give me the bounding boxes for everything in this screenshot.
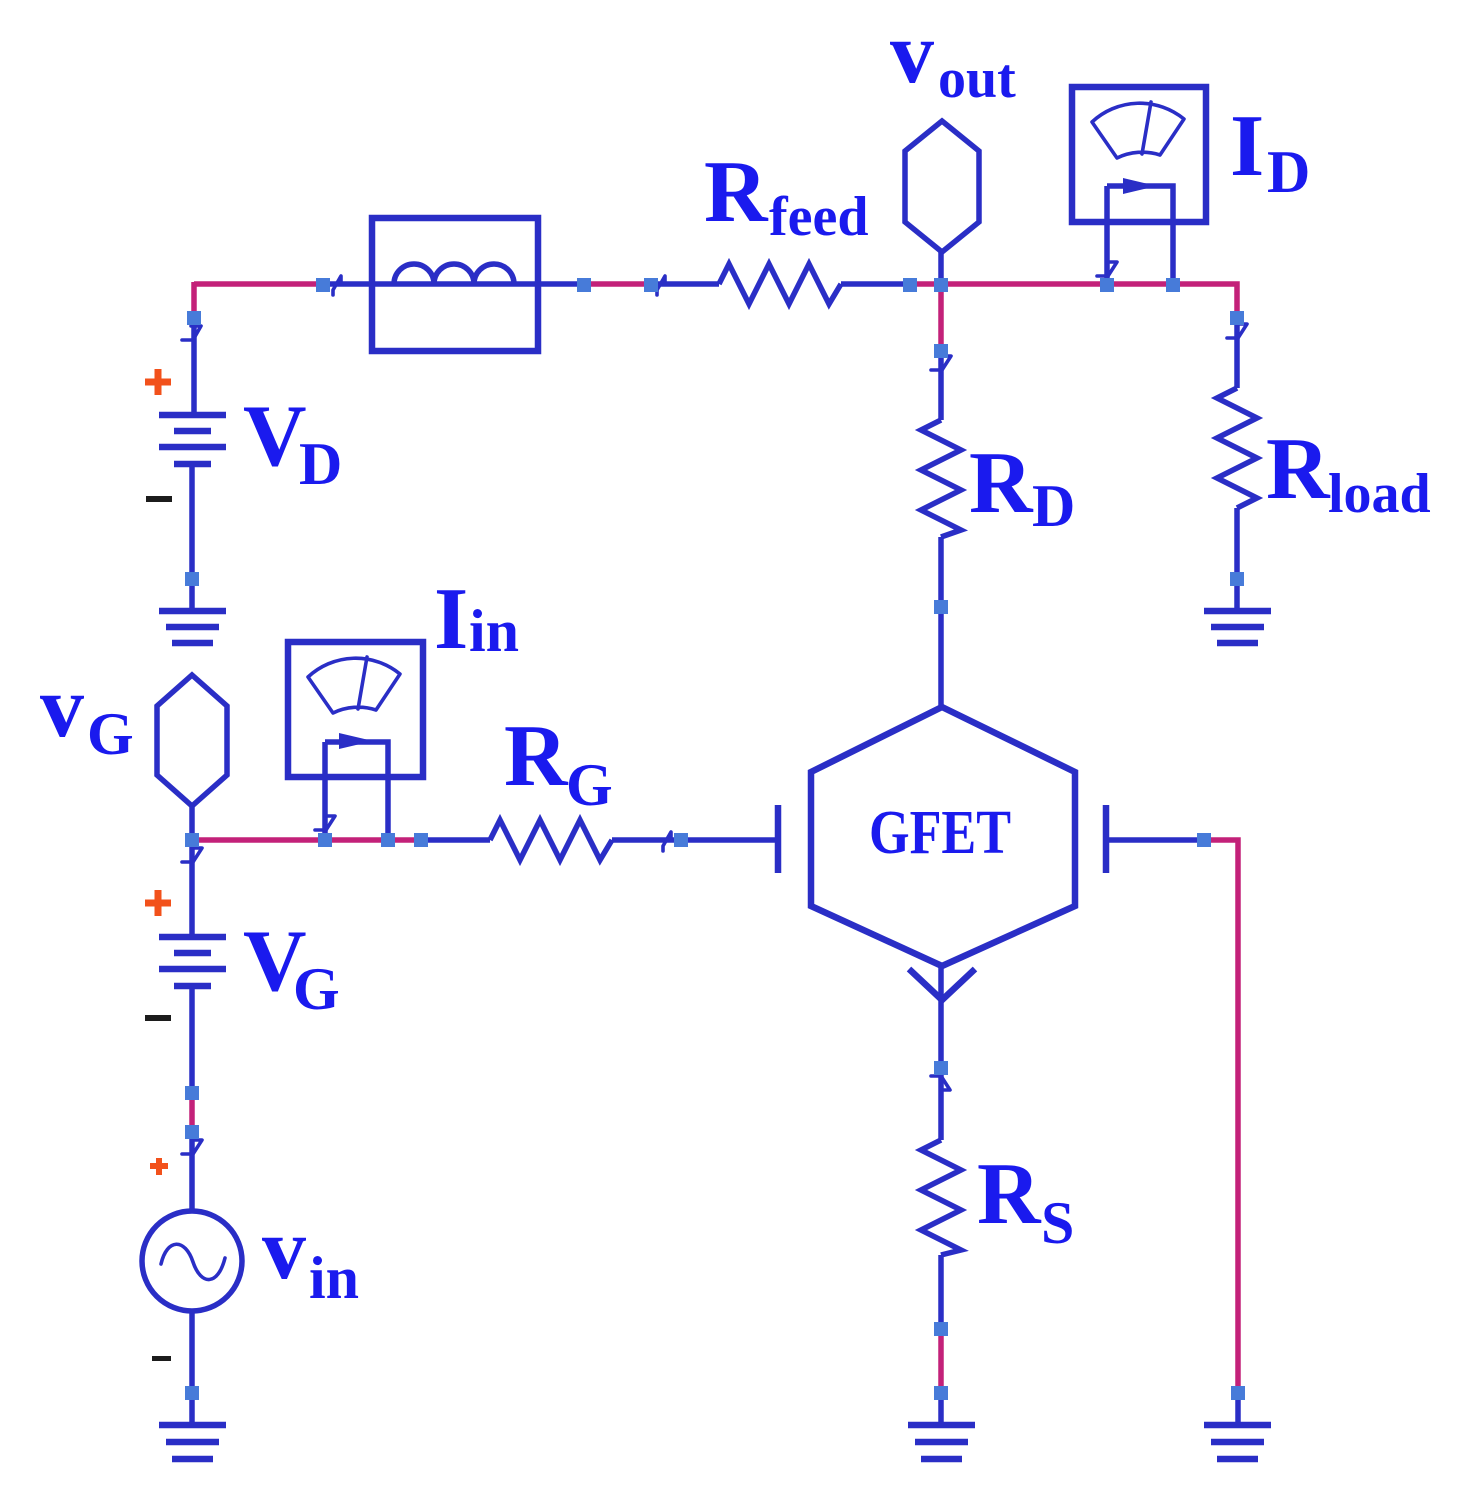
junction node vG (185, 833, 199, 847)
wire RD bottom lead to GFET drain (938, 537, 944, 710)
ground below VD (159, 611, 226, 643)
wire Rload bottom lead to ground (1234, 508, 1240, 611)
wire inductor left (323, 281, 590, 287)
junction node GFET right gate (1197, 833, 1211, 847)
wire RG left lead (419, 837, 490, 843)
wire vG stem (189, 804, 195, 843)
svg-text:G: G (87, 701, 134, 767)
junction node RD top (934, 344, 948, 358)
resistor RG (490, 820, 612, 860)
svg-text:out: out (938, 48, 1016, 110)
wire vout stem (938, 250, 944, 287)
source vin minus label (152, 1356, 171, 1361)
wire magenta RS bottom to ground (938, 1333, 944, 1390)
ground bottom right (1204, 1425, 1271, 1459)
svg-text:load: load (1328, 463, 1431, 525)
svg-text:V: V (243, 388, 307, 485)
ac source vin (142, 1211, 242, 1311)
svg-text:in: in (469, 598, 519, 664)
ground below vin (159, 1425, 226, 1459)
wire magenta vG node to RG junction (196, 837, 423, 843)
battery VD plus label (145, 369, 171, 395)
wire RS bottom lead (938, 1255, 944, 1335)
current arrow on Rload top (1227, 324, 1247, 338)
wire top-left corner magenta horizontal VD to inductor (194, 281, 326, 287)
wire right ground stub (1235, 1388, 1241, 1425)
wire vin top lead (189, 1128, 195, 1212)
junction node Iin right (381, 833, 395, 847)
wire magenta inductor to Rfeed node (586, 281, 652, 287)
current arrow left of RG right junction (663, 832, 671, 851)
battery VD (159, 415, 226, 464)
wire Rfeed right lead (841, 281, 915, 287)
port vG (157, 675, 227, 806)
current arrow on VD top wire (182, 326, 201, 340)
wire VG top lead (189, 838, 195, 937)
wire VD bottom lead to ground (189, 464, 195, 612)
transistor GFET right gate bar (1103, 805, 1110, 873)
junction node inductor left (316, 278, 330, 292)
junction node Iin left (318, 833, 332, 847)
svg-text:R: R (977, 1146, 1042, 1243)
current arrow below vG node (182, 848, 202, 862)
junction node VD ground (185, 572, 199, 586)
svg-text:G: G (566, 752, 613, 818)
ammeter Iin box (288, 642, 423, 777)
svg-text:v: v (262, 1201, 306, 1298)
port vout (905, 121, 979, 252)
battery VG minus label (145, 1015, 171, 1021)
wire magenta Rfeed to Rload corner through vout node (913, 284, 1237, 320)
wire RS ground stub (938, 1388, 944, 1425)
wire Rload top lead (1234, 316, 1240, 388)
battery VG plus label (145, 890, 171, 916)
svg-text:R: R (704, 144, 769, 241)
junction node RS ground (934, 1386, 948, 1400)
junction node RG left (414, 833, 428, 847)
svg-text:in: in (309, 1245, 359, 1311)
junction node VG bottom (185, 1086, 199, 1100)
ammeter Iin gauge (308, 657, 400, 713)
wire magenta vout node down to RD (938, 284, 944, 352)
junction node RD bottom (934, 600, 948, 614)
inductor coil (394, 264, 514, 284)
svg-text:S: S (1041, 1190, 1074, 1256)
svg-text:I: I (1230, 98, 1264, 195)
source vin plus label (150, 1158, 168, 1175)
wire VG bottom lead (189, 986, 195, 1098)
svg-text:v: v (890, 5, 934, 102)
junction node Rfeed right (903, 278, 917, 292)
svg-text:GFET: GFET (869, 799, 1011, 867)
svg-text:D: D (299, 431, 342, 497)
junction node inductor right (577, 278, 591, 292)
junction node Rload top (1230, 311, 1244, 325)
current arrow on ID left lead (1097, 262, 1117, 276)
current arrow on GFET source (931, 1076, 950, 1090)
svg-text:R: R (504, 708, 569, 805)
svg-text:I: I (434, 571, 468, 668)
svg-text:R: R (969, 435, 1034, 532)
svg-text:D: D (1267, 139, 1310, 205)
resistor RD (921, 420, 961, 537)
current arrow above vin (182, 1140, 202, 1154)
ground below Rload (1204, 611, 1271, 643)
current arrow on Iin left lead (315, 816, 335, 830)
current arrow left of inductor (333, 276, 341, 295)
current arrow on RD top (931, 356, 951, 370)
resistor Rload (1217, 388, 1257, 508)
junction node GFET source (934, 1061, 948, 1075)
junction node right ground (1231, 1386, 1245, 1400)
wire GFET source lead (938, 964, 944, 1140)
resistor Rfeed (719, 264, 841, 304)
wire top-left corner magenta vertical (191, 282, 197, 319)
junction node ID right (1166, 278, 1180, 292)
wire magenta VG to vin (189, 1096, 195, 1130)
svg-text:G: G (293, 956, 340, 1022)
svg-text:D: D (1032, 473, 1075, 539)
svg-text:v: v (40, 659, 84, 756)
junction node RS bottom (934, 1322, 948, 1336)
svg-text:feed: feed (769, 186, 869, 248)
resistor RS (921, 1140, 961, 1255)
wire vin bottom lead to ground (189, 1311, 195, 1425)
current arrow left of Rfeed (657, 276, 665, 295)
wire RG right lead to left gate bar (612, 837, 778, 843)
svg-text:R: R (1266, 421, 1331, 518)
junction node Rload ground (1230, 572, 1244, 586)
transistor GFET hexagon body (811, 707, 1075, 966)
ammeter Iin loop with arrow (325, 742, 388, 840)
ammeter ID loop with arrow (1107, 186, 1173, 284)
wire RD top lead (938, 348, 944, 420)
wire GFET right gate lead (1106, 837, 1208, 843)
junction node ID left (1100, 278, 1114, 292)
ammeter ID box (1072, 87, 1206, 222)
wire Rfeed left lead (648, 281, 719, 287)
ground below RS (908, 1425, 975, 1459)
wire magenta GFET right gate down to ground (1206, 840, 1238, 1390)
junction node VD corner (187, 311, 201, 325)
battery VG (159, 937, 226, 986)
wire VD top lead (191, 317, 197, 415)
junction node RG right (674, 833, 688, 847)
battery VD minus label (146, 496, 172, 502)
transistor GFET source arrow (909, 969, 975, 1000)
junction node Rfeed left (644, 278, 658, 292)
transistor GFET left gate bar (775, 805, 782, 873)
junction node vout (934, 278, 948, 292)
inductor box (372, 218, 538, 351)
ammeter ID gauge (1092, 102, 1184, 158)
junction node vin top (185, 1125, 199, 1139)
junction node vin ground (185, 1386, 199, 1400)
